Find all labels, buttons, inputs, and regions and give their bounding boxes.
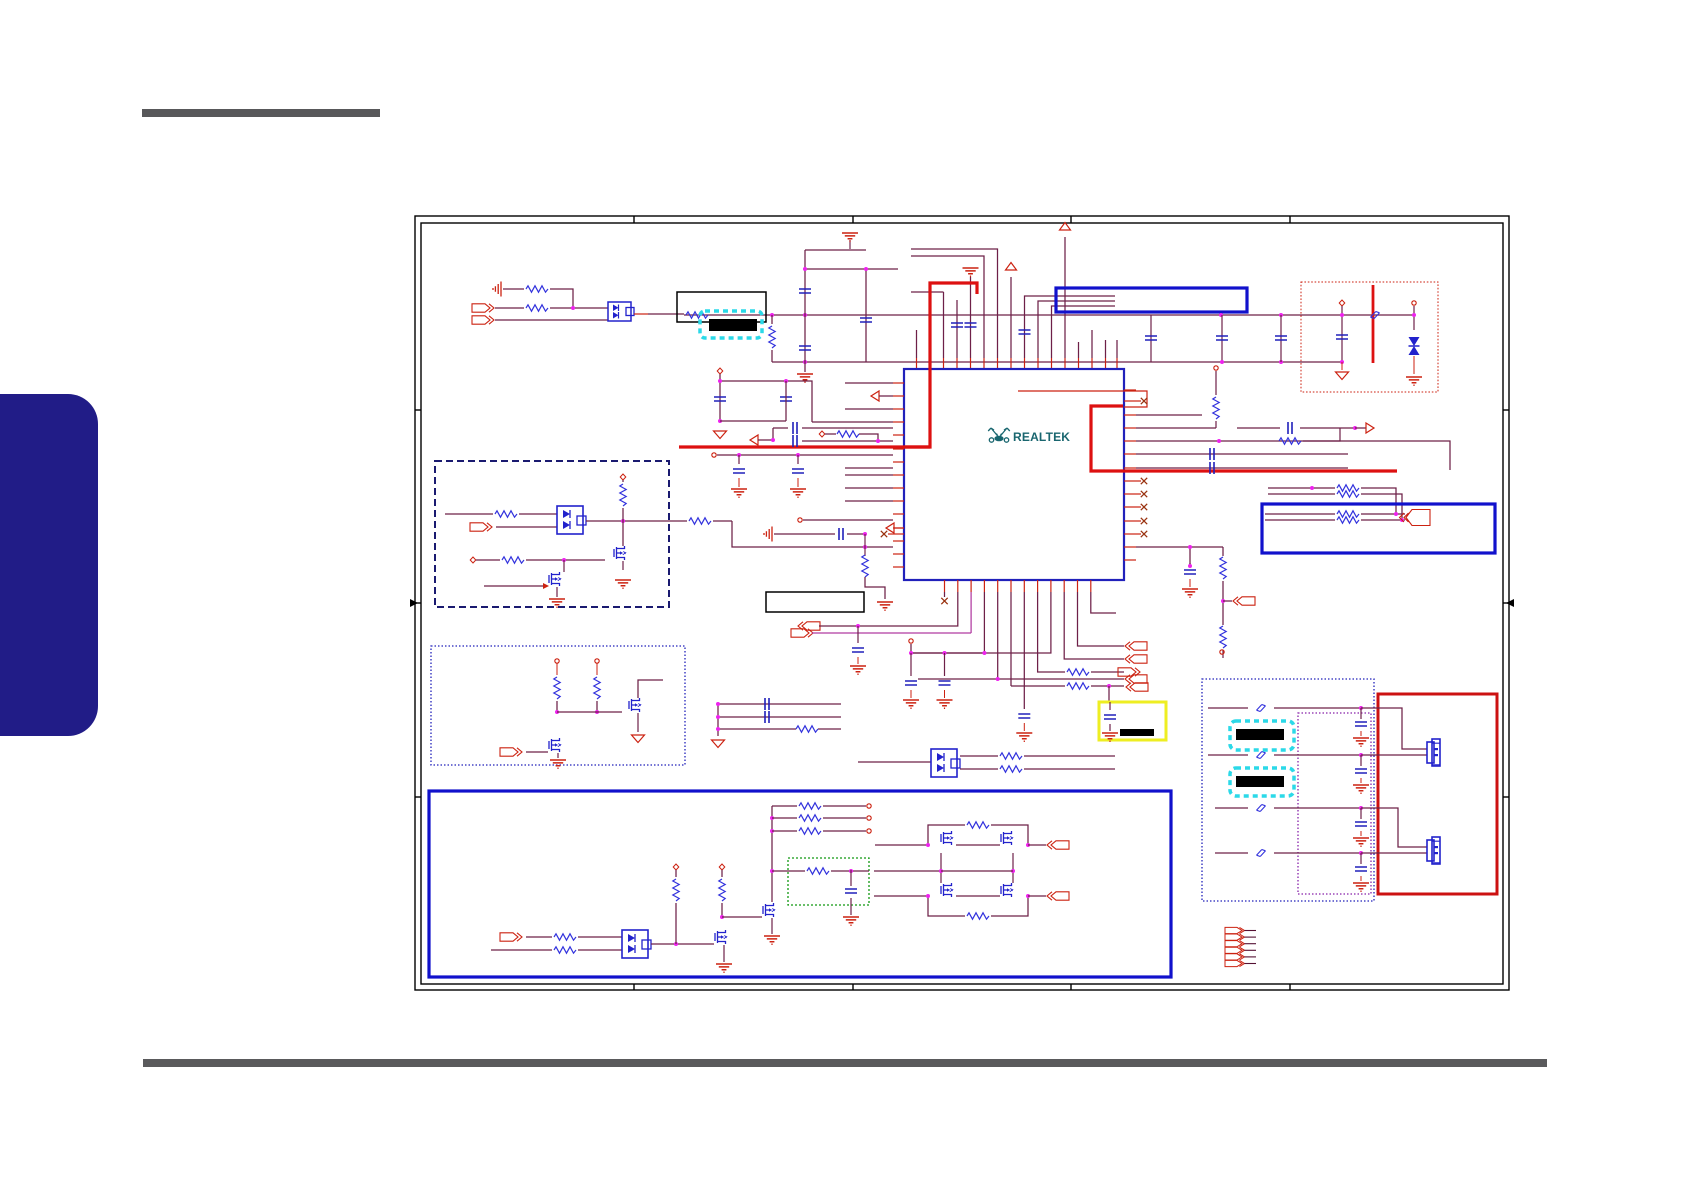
svg-text:REALTEK: REALTEK [1013, 430, 1070, 444]
